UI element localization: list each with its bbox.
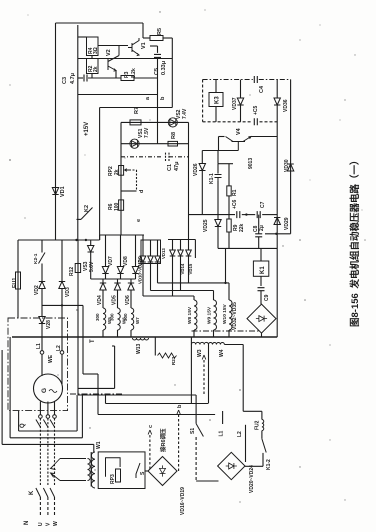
svg-text:L1: L1 [36,343,42,349]
svg-text:300: 300 [110,313,115,321]
svg-text:FU2: FU2 [254,420,260,430]
wire [97,374,99,415]
winding W3 [191,342,208,344]
winding W8 [194,300,197,330]
diode VD8 [117,267,123,274]
diode VD28 [39,317,45,324]
wire [262,453,264,466]
svg-text:W13: W13 [136,344,142,355]
wire phase [54,418,56,485]
resistor R23 (zigzag) [158,353,177,358]
svg-text:300: 300 [123,313,128,321]
transistor V4 9013 [226,137,252,151]
diode VD13 trio [178,250,184,256]
scan noise [299,39,300,40]
bridge rectifier VD20~VD24 [218,452,245,479]
svg-text:K1: K1 [260,266,266,274]
wire phase 1 [143,295,194,297]
resistor R4 3Ω [87,37,99,56]
winding W6 [118,308,121,330]
wire [18,411,20,431]
wire [142,23,144,38]
svg-text:VD4: VD4 [97,295,103,305]
svg-text:VD14: VD14 [180,263,185,274]
dash-dot wire [259,79,291,81]
wire phase [39,418,41,485]
bridge rectifier VD32~VD35 [247,304,276,333]
resistor R12 [75,264,80,273]
junction [275,233,277,235]
svg-text:W9 15V: W9 15V [207,306,213,324]
diode VD26 [199,164,205,171]
svg-text:VD16~VD19: VD16~VD19 [180,487,186,515]
winding W1 [91,452,95,488]
fuse FU1 [16,272,21,289]
wire [17,240,19,272]
wire [88,77,121,79]
wire [41,354,43,376]
svg-text:N: N [24,521,30,525]
wire VD36 column [276,80,278,99]
wire [130,290,132,308]
svg-text:9013: 9013 [248,158,254,169]
wire [193,296,195,300]
CT tap arrows [51,459,61,481]
svg-text:+C5: +C5 [253,105,259,115]
capacitor C5 prime [254,118,257,125]
potentiometer RP2 [119,166,124,176]
svg-text:C4: C4 [259,85,265,93]
dashed line to node c [149,433,151,469]
svg-text:C7: C7 [260,201,266,208]
svg-text:c: c [148,425,154,428]
wire top horizontal [56,22,144,24]
svg-text:接R6调压: 接R6调压 [159,428,167,452]
wire phase [47,402,49,415]
diode VD30 [287,164,293,171]
svg-text:C3: C3 [62,77,68,84]
wire [228,215,230,219]
transistor V2 [108,46,119,72]
wire [81,395,83,438]
junction [245,213,247,215]
wire [90,240,92,246]
wire [142,240,144,256]
svg-text:K2-1: K2-1 [33,253,39,264]
svg-text:VD13: VD13 [161,248,166,259]
wire [276,105,278,337]
svg-text:5.6V: 5.6V [89,261,95,272]
wire phase 2 [151,290,214,292]
svg-text:V4: V4 [236,127,242,135]
wire [150,262,152,291]
wire [61,305,63,350]
svg-text:VD29: VD29 [284,217,290,230]
svg-text:22k: 22k [239,223,245,232]
wire [77,240,79,395]
wire far right vertical [290,80,292,234]
wire [134,77,158,79]
diode block box [141,240,161,264]
wire [150,240,152,256]
phase terminal [53,415,57,419]
wire node-a horizontal [78,94,158,96]
capacitor C6 [237,211,240,218]
breaker blade [43,420,48,428]
wire [193,330,195,337]
relay contact K1-1 [215,175,222,182]
wire phase to grid [47,497,49,515]
svg-text:300: 300 [95,313,100,321]
wire [224,344,243,346]
svg-text:L2: L2 [237,431,243,437]
resistor R2 2k [87,59,99,74]
wire [180,240,182,251]
wire [202,150,238,152]
wire [265,233,291,235]
wire [201,151,203,164]
wire [213,330,215,337]
wire [41,264,43,282]
wire [261,333,263,337]
switch S1 [196,424,203,437]
rheostat RP3 [116,469,121,482]
diode VD13 trio [170,250,176,256]
wire [102,290,104,308]
dashed wire [260,121,278,123]
svg-text:VD7: VD7 [108,256,114,266]
winding W5 [103,308,106,330]
svg-text:VD10~VD12: VD10~VD12 [138,259,143,284]
svg-text:7.5V: 7.5V [144,127,150,138]
wire [142,262,144,296]
terminal L1 [40,351,44,355]
wire [208,345,210,404]
wire RP2/R6 vertical [120,122,122,225]
wire L1 stub [222,411,224,424]
wire [78,77,83,79]
bridge rectifier VD16~VD19 [148,457,177,486]
svg-text:VD36: VD36 [283,99,289,112]
wire [260,248,262,261]
wire jog [99,235,101,240]
wire [217,164,219,174]
wire [130,330,132,337]
wire [228,232,230,248]
svg-text:2k: 2k [93,66,99,72]
svg-text:VD30: VD30 [284,159,290,172]
wire [91,74,93,79]
wire [145,470,148,472]
wire [105,235,107,267]
dash-dot wire [203,79,253,81]
wire [9,337,11,438]
switch K2-1 [39,253,46,264]
svg-text:0.33μ: 0.33μ [161,61,167,75]
svg-text:W8 15V: W8 15V [187,306,193,324]
resistor R9 22k [227,219,231,232]
resistor R7 [130,120,141,125]
svg-text:W7: W7 [135,317,140,324]
capacitor C5 [154,54,161,57]
zener diode VS3 [88,246,94,253]
svg-text:4.7μ: 4.7μ [70,73,76,84]
wire V2 emitter [115,71,117,79]
wire [61,289,63,306]
wire [61,354,63,384]
wire [215,80,217,93]
wire [217,151,219,164]
wire [17,289,19,318]
wire [245,465,263,467]
wire [78,394,196,396]
diode VD2 [39,282,45,289]
diode VD3 [59,282,65,289]
junction [224,282,226,284]
wire [215,107,217,122]
wire [117,290,119,308]
wire main bus [12,336,277,338]
svg-text:VD8: VD8 [123,256,129,266]
generator G [34,374,63,403]
wire [189,214,236,216]
wire [196,480,218,482]
wire [106,403,209,405]
svg-text:VD5: VD5 [112,295,118,305]
wire [218,163,233,165]
wire [154,337,156,356]
wire [243,410,262,412]
wire [217,181,219,215]
junction [61,304,63,306]
svg-text:V28: V28 [46,320,52,329]
wire [76,395,78,431]
svg-text:W1: W1 [96,441,102,449]
svg-text:47μ: 47μ [174,162,180,171]
diode VD36 [274,98,280,105]
wire stub [194,240,196,259]
wire [240,80,242,98]
wire left outer vertical [55,23,57,240]
breaker blade [36,420,41,428]
svg-text:K1-2: K1-2 [266,459,272,470]
wire [213,291,215,301]
diode VD10 trio [148,256,154,262]
wire node-d [121,190,137,192]
wire wrap 1 [19,430,78,432]
wire [171,38,173,108]
wire phase [47,418,49,485]
wire [218,247,277,249]
wire [195,395,197,424]
wire [135,235,137,267]
dashed wire [202,80,204,122]
resistor R8 [168,141,178,146]
capacitor C7 [257,211,260,218]
dash-dot enclosure fragment [70,393,124,395]
wire [157,262,159,283]
wire [251,136,277,138]
wire [143,37,150,39]
wire [135,274,137,279]
diode VD1 [52,188,58,195]
capacitor C3 [84,75,87,82]
wire [201,171,203,215]
wire [120,225,122,235]
breaker blade [50,420,55,428]
wire [78,387,115,389]
svg-text:W10 15V: W10 15V [222,303,228,324]
switch K2 [81,208,93,220]
wire [228,164,230,186]
svg-text:K1-1: K1-1 [209,173,215,184]
transformer core bar [90,452,92,487]
wire [150,45,158,47]
wire [258,237,260,249]
wire [1,350,3,444]
diode VD5 [114,283,120,290]
svg-text:3Ω: 3Ω [93,47,99,54]
dash-dot enclosure fragment 2 [192,330,260,332]
wire L2 [245,425,247,462]
svg-text:K2: K2 [84,205,90,212]
wire [102,279,104,283]
dashed tap arrow [203,358,205,394]
wire [242,214,255,216]
diode VD27 [274,218,280,225]
winding CT secondary [88,459,91,481]
wire wrap 2 [10,437,82,439]
svg-text:U: U [38,522,44,526]
svg-text:C9: C9 [264,294,270,301]
regulator box [98,452,145,489]
wire [61,240,63,282]
wire [82,305,84,374]
svg-text:Q: Q [20,423,26,428]
wire phase [54,402,56,415]
wire [262,214,277,216]
wire [240,105,242,122]
wire [225,248,227,283]
RP2 wiper arrow [125,169,129,172]
relay K1 [253,261,268,276]
svg-text:VD3: VD3 [65,287,71,297]
wire [41,240,43,253]
wire right vertical of control block [188,122,190,239]
svg-text:d: d [139,190,145,193]
svg-text:VD20~VD24: VD20~VD24 [249,465,255,493]
wire [93,444,95,452]
wire phase to grid [39,497,41,515]
switch K blade [50,488,55,497]
switch K blade [43,488,48,497]
wire [112,345,115,347]
winding W13 [133,338,149,340]
wire [105,274,107,279]
dashed link [136,170,138,191]
wire [41,289,43,317]
terminal L2 [60,351,64,355]
wire [90,252,92,279]
resistor R3 [121,76,134,81]
inner loop [106,458,121,477]
svg-text:+15V: +15V [84,122,90,136]
diode VD6 [128,283,134,290]
wire phase 3 [158,282,230,284]
winding W7 [131,308,134,330]
wire [190,337,192,345]
dashed line to node b [178,413,180,471]
wire [42,304,83,306]
diode VD9 [132,267,138,274]
wire [260,291,262,304]
svg-text:G: G [41,388,48,393]
wire [218,137,220,151]
wire [157,240,159,256]
wire [195,437,197,481]
wire [242,345,244,412]
svg-text:VD32~VD35: VD32~VD35 [232,302,238,330]
zener diode VS1 [130,139,139,148]
diode VD25 [215,220,221,227]
svg-text:VD2: VD2 [34,285,40,295]
svg-text:VD1: VD1 [60,186,66,197]
wire [180,256,182,291]
svg-text:e: e [136,219,142,222]
wire [91,56,93,59]
wire [157,46,159,53]
dash-dot link [121,156,163,158]
winding W4 [209,343,225,345]
svg-text:T: T [90,339,96,343]
switch S [136,463,140,478]
wire phase [39,402,41,415]
svg-text:VD37: VD37 [232,97,238,110]
wire [78,58,173,60]
wire [117,279,119,283]
dashed wire [203,121,252,123]
capacitor C1 47μ [166,153,170,162]
wire [188,240,190,251]
svg-text:FU1: FU1 [12,278,18,288]
svg-text:K3: K3 [215,96,221,104]
resistor R6 [119,200,124,210]
wire [102,330,104,337]
svg-text:RP3: RP3 [110,474,116,484]
generator enclosure (dash-dot) [8,318,68,411]
wire [114,346,116,388]
svg-text:R1: R1 [232,189,238,196]
wire [98,414,215,416]
capacitor C4 [254,76,257,83]
wire [157,59,159,144]
diode VD13 trio [186,250,192,256]
wire [105,395,107,404]
wire phase to grid [54,497,56,515]
winding W9 [214,300,217,330]
wire [172,256,174,296]
zener diode VS2 [168,118,177,127]
wire [228,196,230,215]
wire [217,215,219,220]
wire rail A [18,239,100,241]
svg-text:VD25: VD25 [203,219,209,232]
svg-text:V2: V2 [106,49,112,56]
wire rail B [100,234,144,236]
wire CT bottom [60,480,86,482]
wire [260,276,262,286]
phase terminal [39,415,43,419]
